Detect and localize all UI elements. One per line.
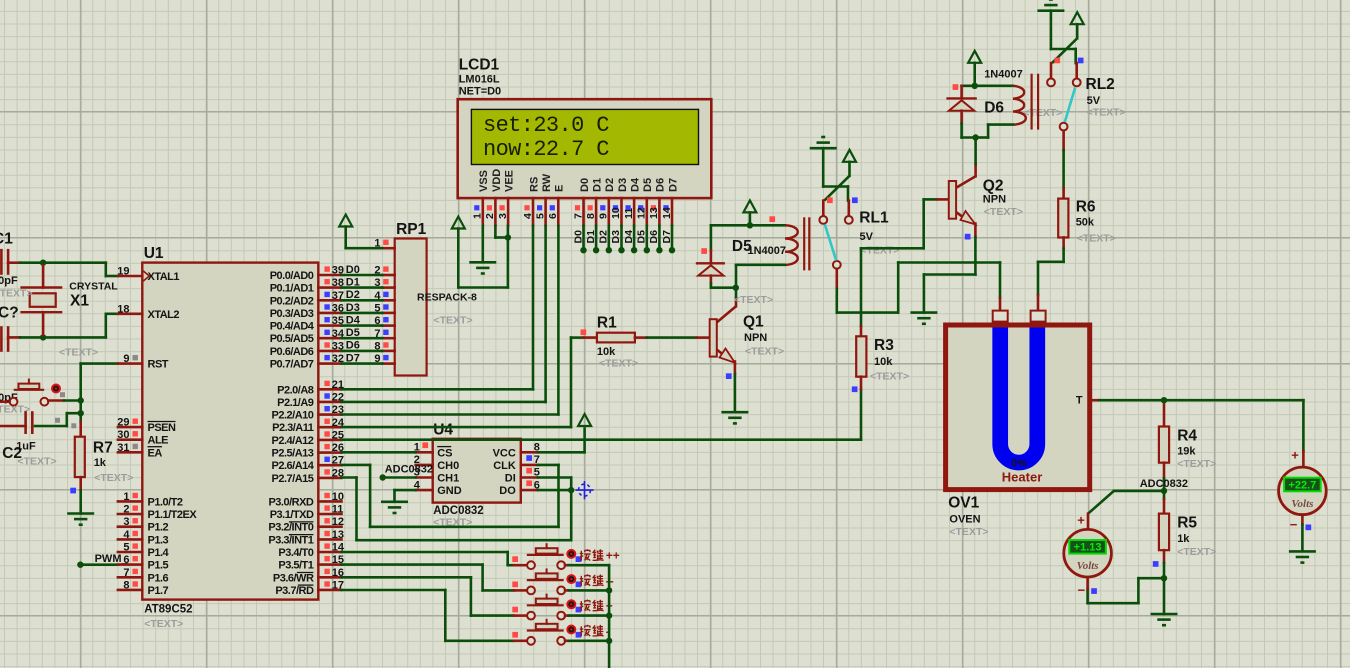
svg-text:OVEN: OVEN <box>949 513 980 525</box>
svg-text:RST: RST <box>148 359 169 371</box>
svg-text:D4: D4 <box>629 177 641 192</box>
svg-text:D2: D2 <box>604 178 616 192</box>
svg-text:+: + <box>1291 448 1299 463</box>
svg-text:NET=D0: NET=D0 <box>459 86 502 98</box>
svg-text:13: 13 <box>332 529 344 541</box>
svg-text:9: 9 <box>123 353 129 365</box>
svg-text:<TEXT>: <TEXT> <box>734 294 773 306</box>
svg-text:P1.2: P1.2 <box>148 522 169 534</box>
svg-text:DO: DO <box>499 485 516 497</box>
svg-text:10: 10 <box>610 207 622 219</box>
svg-text:Volts: Volts <box>1077 560 1099 572</box>
svg-text:P1.7: P1.7 <box>148 585 169 597</box>
svg-text:<TEXT>: <TEXT> <box>949 526 988 538</box>
svg-text:P2.2/A10: P2.2/A10 <box>272 410 314 422</box>
svg-text:P1.3: P1.3 <box>148 534 169 546</box>
svg-text:D1: D1 <box>591 178 603 192</box>
svg-text:CS: CS <box>437 447 452 459</box>
svg-text:50k: 50k <box>1076 217 1095 229</box>
svg-text:GND: GND <box>437 485 462 497</box>
svg-text:<TEXT>: <TEXT> <box>745 346 784 358</box>
svg-text:31: 31 <box>117 442 129 454</box>
svg-text:RL1: RL1 <box>859 210 889 227</box>
svg-text:<TEXT>: <TEXT> <box>860 245 899 257</box>
svg-text:set:23.0 C: set:23.0 C <box>483 113 609 138</box>
svg-text:P3.6/WR: P3.6/WR <box>273 572 314 584</box>
svg-text:<TEXT>: <TEXT> <box>0 288 33 300</box>
svg-text:P2.4/A12: P2.4/A12 <box>272 435 314 447</box>
svg-text:<TEXT>: <TEXT> <box>1087 107 1126 119</box>
svg-text:1: 1 <box>123 491 129 503</box>
svg-text:0%: 0% <box>1011 457 1027 469</box>
svg-text:LM016L: LM016L <box>459 74 500 86</box>
svg-text:5: 5 <box>534 213 546 219</box>
svg-text:11: 11 <box>332 504 344 516</box>
svg-text:P2.6/A14: P2.6/A14 <box>272 460 315 472</box>
svg-text:E: E <box>554 185 566 192</box>
svg-text:<TEXT>: <TEXT> <box>984 206 1023 218</box>
svg-text:P3.1/TXD: P3.1/TXD <box>270 509 314 521</box>
svg-text:P2.1/A9: P2.1/A9 <box>277 397 314 409</box>
svg-text:7: 7 <box>572 213 584 219</box>
svg-text:D7: D7 <box>667 178 679 192</box>
svg-text:Q1: Q1 <box>743 314 764 331</box>
svg-text:2: 2 <box>484 213 496 219</box>
svg-text:<TEXT>: <TEXT> <box>18 456 57 468</box>
svg-text:VEE: VEE <box>503 170 515 192</box>
svg-text:11: 11 <box>623 208 635 219</box>
svg-text:1: 1 <box>472 213 484 219</box>
svg-text:<TEXT>: <TEXT> <box>59 347 98 359</box>
svg-text:AT89C52: AT89C52 <box>144 604 192 616</box>
svg-text:NPN: NPN <box>744 332 767 344</box>
svg-text:<TEXT>: <TEXT> <box>144 618 183 630</box>
svg-text:29: 29 <box>117 417 129 429</box>
svg-text:P2.3/A11: P2.3/A11 <box>272 422 314 434</box>
svg-text:1N4007: 1N4007 <box>748 245 787 257</box>
svg-text:ALE: ALE <box>148 435 169 447</box>
svg-text:+: + <box>1077 513 1085 528</box>
svg-text:<TEXT>: <TEXT> <box>870 371 909 383</box>
svg-text:Volts: Volts <box>1291 498 1313 510</box>
svg-text:4: 4 <box>522 213 534 219</box>
svg-text:P0.2/AD2: P0.2/AD2 <box>270 295 314 307</box>
svg-text:D5: D5 <box>642 178 654 192</box>
svg-text:6: 6 <box>123 554 129 566</box>
svg-text:R1: R1 <box>597 315 617 332</box>
svg-text:R6: R6 <box>1076 199 1096 216</box>
svg-text:C?: C? <box>0 305 19 322</box>
svg-text:10: 10 <box>332 491 344 503</box>
svg-text:1k: 1k <box>1177 533 1190 545</box>
svg-text:RL2: RL2 <box>1086 76 1115 93</box>
svg-text:D6: D6 <box>655 178 667 192</box>
svg-text:1N4007: 1N4007 <box>984 69 1023 81</box>
svg-text:P0.4/AD4: P0.4/AD4 <box>270 321 315 333</box>
svg-text:NPN: NPN <box>983 194 1006 206</box>
svg-text:P1.4: P1.4 <box>148 547 170 559</box>
svg-text:X1: X1 <box>70 293 89 310</box>
svg-text:CH0: CH0 <box>437 460 459 472</box>
svg-text:5V: 5V <box>1087 95 1101 107</box>
svg-text:<TEXT>: <TEXT> <box>1023 107 1062 119</box>
svg-text:P2.5/A13: P2.5/A13 <box>272 448 314 460</box>
svg-text:ADC0832: ADC0832 <box>433 505 484 517</box>
svg-text:P0.6/AD6: P0.6/AD6 <box>270 346 314 358</box>
svg-text:U1: U1 <box>144 245 164 262</box>
svg-text:+22.7: +22.7 <box>1288 479 1316 491</box>
svg-text:VCC: VCC <box>493 447 516 459</box>
svg-text:<TEXT>: <TEXT> <box>434 315 473 327</box>
svg-text:T: T <box>1076 395 1083 407</box>
svg-text:30pF: 30pF <box>0 275 18 287</box>
svg-text:P0.7/AD7: P0.7/AD7 <box>270 359 314 371</box>
svg-text:P3.5/T1: P3.5/T1 <box>278 560 313 572</box>
svg-text:P3.2/INT0: P3.2/INT0 <box>268 522 313 534</box>
svg-text:RW: RW <box>541 173 553 192</box>
svg-text:R4: R4 <box>1177 428 1197 445</box>
svg-text:14: 14 <box>661 207 673 219</box>
svg-text:RESPACK-8: RESPACK-8 <box>417 292 477 304</box>
svg-text:18: 18 <box>117 303 129 315</box>
svg-text:PSEN: PSEN <box>148 422 177 434</box>
svg-text:P1.0/T2: P1.0/T2 <box>148 496 183 508</box>
svg-text:3: 3 <box>123 516 129 528</box>
svg-text:<TEXT>: <TEXT> <box>94 472 133 484</box>
svg-text:P1.1/T2EX: P1.1/T2EX <box>148 509 198 521</box>
svg-text:Q2: Q2 <box>983 178 1004 195</box>
svg-text:RS: RS <box>528 177 540 192</box>
svg-text:P3.0/RXD: P3.0/RXD <box>268 496 313 508</box>
svg-text:2: 2 <box>123 504 129 516</box>
svg-text:U4: U4 <box>433 422 453 439</box>
svg-text:12: 12 <box>332 516 344 528</box>
svg-text:Heater: Heater <box>1002 470 1042 485</box>
svg-text:P3.7/RD: P3.7/RD <box>275 585 314 597</box>
svg-text:CLK: CLK <box>493 460 516 472</box>
svg-text:6: 6 <box>547 213 559 219</box>
svg-text:1k: 1k <box>94 457 107 469</box>
svg-text:C1: C1 <box>0 231 13 248</box>
svg-text:8: 8 <box>123 579 129 591</box>
svg-text:9: 9 <box>598 213 610 219</box>
svg-text:OV1: OV1 <box>948 495 979 512</box>
svg-text:R3: R3 <box>874 337 894 354</box>
svg-text:D6: D6 <box>984 100 1004 117</box>
svg-text:+1.13: +1.13 <box>1074 542 1102 554</box>
svg-text:VDD: VDD <box>491 169 503 192</box>
svg-text:P0.3/AD3: P0.3/AD3 <box>270 308 314 320</box>
svg-text:10k: 10k <box>874 356 893 368</box>
svg-text:7: 7 <box>123 567 129 579</box>
svg-text:R5: R5 <box>1177 515 1197 532</box>
svg-text:13: 13 <box>648 207 660 219</box>
svg-text:P2.0/A8: P2.0/A8 <box>277 384 314 396</box>
svg-text:RP1: RP1 <box>396 221 427 238</box>
svg-text:now:22.7 C: now:22.7 C <box>483 137 609 162</box>
svg-text:<TEXT>: <TEXT> <box>1177 458 1216 470</box>
svg-text:DI: DI <box>505 473 516 485</box>
svg-text:−: − <box>1078 583 1086 598</box>
svg-text:5V: 5V <box>860 231 874 243</box>
svg-text:LCD1: LCD1 <box>459 57 500 74</box>
svg-text:<TEXT>: <TEXT> <box>1177 546 1216 558</box>
svg-text:P1.6: P1.6 <box>148 572 169 584</box>
svg-text:−: − <box>1290 517 1298 532</box>
svg-text:XTAL1: XTAL1 <box>148 271 180 283</box>
svg-text:10k: 10k <box>597 346 616 358</box>
svg-text:CH1: CH1 <box>437 473 459 485</box>
svg-text:P3.4/T0: P3.4/T0 <box>278 547 313 559</box>
svg-text:12: 12 <box>636 207 648 219</box>
svg-text:ADC0832: ADC0832 <box>385 464 433 476</box>
svg-text:P0.1/AD1: P0.1/AD1 <box>270 283 314 295</box>
svg-text:19: 19 <box>117 266 129 278</box>
svg-text:<TEXT>: <TEXT> <box>1077 233 1116 245</box>
svg-text:P0.5/AD5: P0.5/AD5 <box>270 333 314 345</box>
svg-text:P3.3/INT1: P3.3/INT1 <box>268 534 313 546</box>
svg-text:R7: R7 <box>93 440 113 457</box>
svg-text:30: 30 <box>117 429 129 441</box>
svg-text:CRYSTAL: CRYSTAL <box>69 281 118 293</box>
svg-text:4: 4 <box>123 529 130 541</box>
svg-text:<TEXT>: <TEXT> <box>599 358 638 370</box>
svg-text:D3: D3 <box>617 178 629 192</box>
svg-text:VSS: VSS <box>478 170 490 192</box>
svg-text:EA: EA <box>148 447 163 459</box>
svg-text:19k: 19k <box>1177 446 1196 458</box>
svg-text:8: 8 <box>585 213 597 219</box>
svg-text:P0.0/AD0: P0.0/AD0 <box>270 270 314 282</box>
svg-text:P2.7/A15: P2.7/A15 <box>272 473 314 485</box>
svg-text:D0: D0 <box>579 178 591 192</box>
svg-text:++: ++ <box>606 549 620 563</box>
svg-text:P1.5: P1.5 <box>148 560 169 572</box>
svg-text:XTAL2: XTAL2 <box>148 309 180 321</box>
svg-text:3: 3 <box>497 213 509 219</box>
svg-text:5: 5 <box>123 542 129 554</box>
svg-text:ADC0832: ADC0832 <box>1140 478 1188 490</box>
